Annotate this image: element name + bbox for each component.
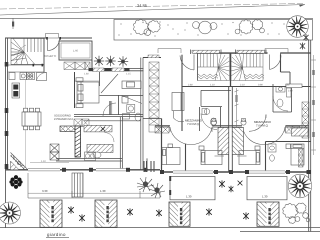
right side dim marks (311, 55, 316, 155)
left outer wall (5, 38, 7, 228)
internal wall y158-161 left unit (56, 157, 122, 159)
wall below stairs (6, 64, 45, 66)
three palm stars courtyard (94, 56, 128, 67)
door arc below closet (174, 111, 185, 122)
svg-text:1.10: 1.10 (41, 160, 46, 163)
hatch band corridor (84, 125, 112, 132)
small stars scattered (68, 127, 249, 222)
sill x-boxes below topleft room (64, 62, 90, 70)
unit3 right corridor wall L (280, 53, 282, 72)
bed room1 (76, 78, 99, 108)
right outer wall (308, 40, 310, 232)
wc right unit bottom (268, 144, 276, 161)
dimension ticks left terrace (28, 173, 160, 198)
svg-text:giardino: giardino (47, 232, 66, 237)
wall x147 short (146, 158, 148, 169)
double door cloud unit2 (170, 127, 212, 145)
unit2 small bath fixtures (201, 109, 217, 130)
bottom wall windows left unit (28, 168, 126, 171)
ground baseline (0, 227, 320, 229)
hatched stair flights mid units (215, 128, 247, 157)
unit2 entry wall (181, 53, 183, 131)
terrace2 edge ticks (169, 176, 171, 181)
main top wall mid units (181, 52, 311, 54)
door arc corridor left unit (103, 101, 116, 116)
door opening gaps (white) (48, 37, 280, 55)
party wall stairs (230, 53, 232, 87)
duct vertical dark (75, 126, 81, 157)
door jambs (46, 37, 48, 40)
small stars right of tree (300, 34, 309, 49)
unit2 room walls (200, 90, 202, 106)
left terrace bottom line (28, 197, 160, 199)
toilet and sinks between bands (93, 152, 101, 158)
property line (0, 17, 313, 19)
svg-text:7.04 M.Q: 7.04 M.Q (256, 124, 269, 128)
garden strip border (114, 20, 313, 41)
window sills on wall x92-143 (93, 68, 104, 71)
big star tree bottom left (0, 202, 21, 224)
planter 3 (169, 202, 190, 226)
svg-text:1.30: 1.30 (100, 189, 106, 193)
svg-text:0.90: 0.90 (258, 84, 263, 87)
stair2 fan (198, 54, 230, 81)
kitchen/stair divider (43, 38, 45, 72)
bush cluster bottom right (283, 203, 310, 223)
planter 4 (257, 202, 279, 226)
entry door arc left unit (48, 39, 60, 51)
top boundary dashed line (0, 4, 303, 10)
unit2 entry door (180, 55, 194, 71)
terrace unit2 (170, 177, 215, 200)
internal walls y125.5-127 mid units (155, 125, 170, 127)
stairs top-left winder (11, 39, 44, 65)
svg-text:1.30: 1.30 (262, 195, 268, 199)
svg-text:2.60: 2.60 (285, 84, 290, 87)
wall x265.5 right unit (265, 142, 267, 173)
party wall left unit / strip (140, 58, 142, 171)
bottom wall right part (160, 171, 311, 173)
svg-text:1.15: 1.15 (126, 73, 131, 76)
closet line above bed (75, 80, 99, 82)
piers on upper wall (89, 68, 130, 71)
svg-text:1.60: 1.60 (84, 73, 89, 76)
small wall x99 bedroom right (99, 72, 101, 86)
kitchen counter (8, 72, 47, 81)
corridor wall y118 (143, 118, 162, 120)
svg-text:L.60: L.60 (73, 50, 79, 53)
terrace unit3 (247, 177, 287, 200)
bottom wall left unit (6, 169, 161, 171)
top-left room (59, 41, 92, 60)
bed right unit vertical (286, 144, 304, 165)
window sill unit3 (236, 50, 267, 55)
stair2 enclosure left (197, 54, 199, 81)
piers on left wall (5, 62, 9, 67)
wardrobe strip left-unit right side (149, 62, 159, 132)
hatch band right unit (292, 128, 309, 136)
star tree top right (287, 16, 309, 38)
svg-text:2.10: 2.10 (240, 84, 245, 87)
wardrobe bar dark with x-hatch (60, 126, 80, 132)
unit3 bathroom walls (272, 84, 274, 112)
svg-text:3 P.LETTI: 3 P.LETTI (44, 54, 56, 58)
bed unit2 lower-left room (162, 144, 180, 165)
x-cells below corridor wall (74, 119, 89, 127)
room divider unit2 lower (185, 144, 187, 172)
closet box unit2 corridor (172, 93, 184, 111)
wall x118 bathroom left (118, 95, 120, 115)
mid horizontal wall units2-3 (182, 86, 311, 88)
corridor vertical x120 double (119, 117, 121, 170)
beds lower mid rooms (199, 146, 260, 165)
bottom wall windows mid units (173, 170, 285, 173)
double door cloud unit3 (243, 127, 286, 145)
shower corner bottom-left (11, 153, 29, 170)
bush cluster A (133, 19, 160, 35)
pedestal sinks flanking party wall (211, 119, 246, 126)
vertical dim line mid (235, 88, 239, 130)
svg-text:3.30: 3.30 (42, 189, 48, 193)
thin floor line (25, 80, 27, 108)
planter 1 (40, 200, 62, 227)
small x strip right lower (299, 149, 304, 167)
dark flower left outside (9, 175, 22, 189)
svg-text:1.10: 1.10 (210, 84, 215, 87)
corridor door jambs (33, 64, 35, 67)
unit3 small bath fixtures (273, 87, 291, 112)
porch line unit3 (265, 48, 288, 50)
unit2 left wall lower (161, 119, 163, 173)
stacked cabinet living room (50, 144, 59, 160)
svg-text:7.04 M.Q: 7.04 M.Q (187, 122, 200, 126)
porch line unit2 (158, 48, 181, 50)
big flower tree bottom right (288, 174, 312, 198)
exterior steps block A (72, 173, 83, 197)
flower cluster mid terrace (137, 177, 165, 198)
svg-text:2.60: 2.60 (288, 90, 293, 93)
dining table (22, 108, 41, 130)
wall jambs near x145 (144, 161, 154, 172)
party wall units2-3 lower cavity (228, 87, 230, 172)
top dimension line with arrow (0, 5, 305, 16)
hatch band lower (87, 144, 113, 152)
wardrobe strip right wall x-boxes (302, 102, 309, 138)
window sill right room (286, 84, 302, 88)
strip top wall (143, 57, 161, 59)
piers on bottom wall (62, 168, 311, 174)
svg-text:Z.PRANZO M.2: Z.PRANZO M.2 (54, 118, 73, 121)
bush cluster C (235, 20, 264, 34)
door arc unit3 hall (249, 115, 266, 132)
planter 2 (95, 200, 117, 227)
dim line living room (30, 162, 69, 164)
top wall left unit (6, 37, 93, 39)
svg-text:1.30: 1.30 (186, 195, 192, 199)
stair3 fan mirrored (231, 54, 264, 81)
bathroom small left unit (122, 96, 143, 122)
dimension tick left (12, 18, 14, 29)
sill x-boxes mid walls (155, 126, 300, 133)
unit3 entry door (270, 55, 282, 70)
garden strip dots (118, 21, 288, 36)
window sill unit2 (191, 50, 222, 55)
upper wall x92-143 double (92, 68, 144, 70)
entry canopy left unit (46, 34, 59, 39)
wall y141 right unit (266, 141, 312, 143)
svg-text:2.60: 2.60 (188, 84, 193, 87)
sill on strip top (148, 55, 159, 58)
svg-text:34.85: 34.85 (137, 3, 148, 8)
corridor lower line left unit (84, 120, 141, 122)
small arc between hatch bands (105, 133, 115, 143)
kitchen left column dark unit (12, 83, 20, 98)
internal wall y114-116 left unit corridor (74, 114, 143, 116)
bedroom1 left wall (74, 72, 76, 108)
bush cluster B circles (193, 21, 218, 34)
bedroom2 desk right (101, 74, 141, 103)
wall y95 (100, 95, 144, 97)
